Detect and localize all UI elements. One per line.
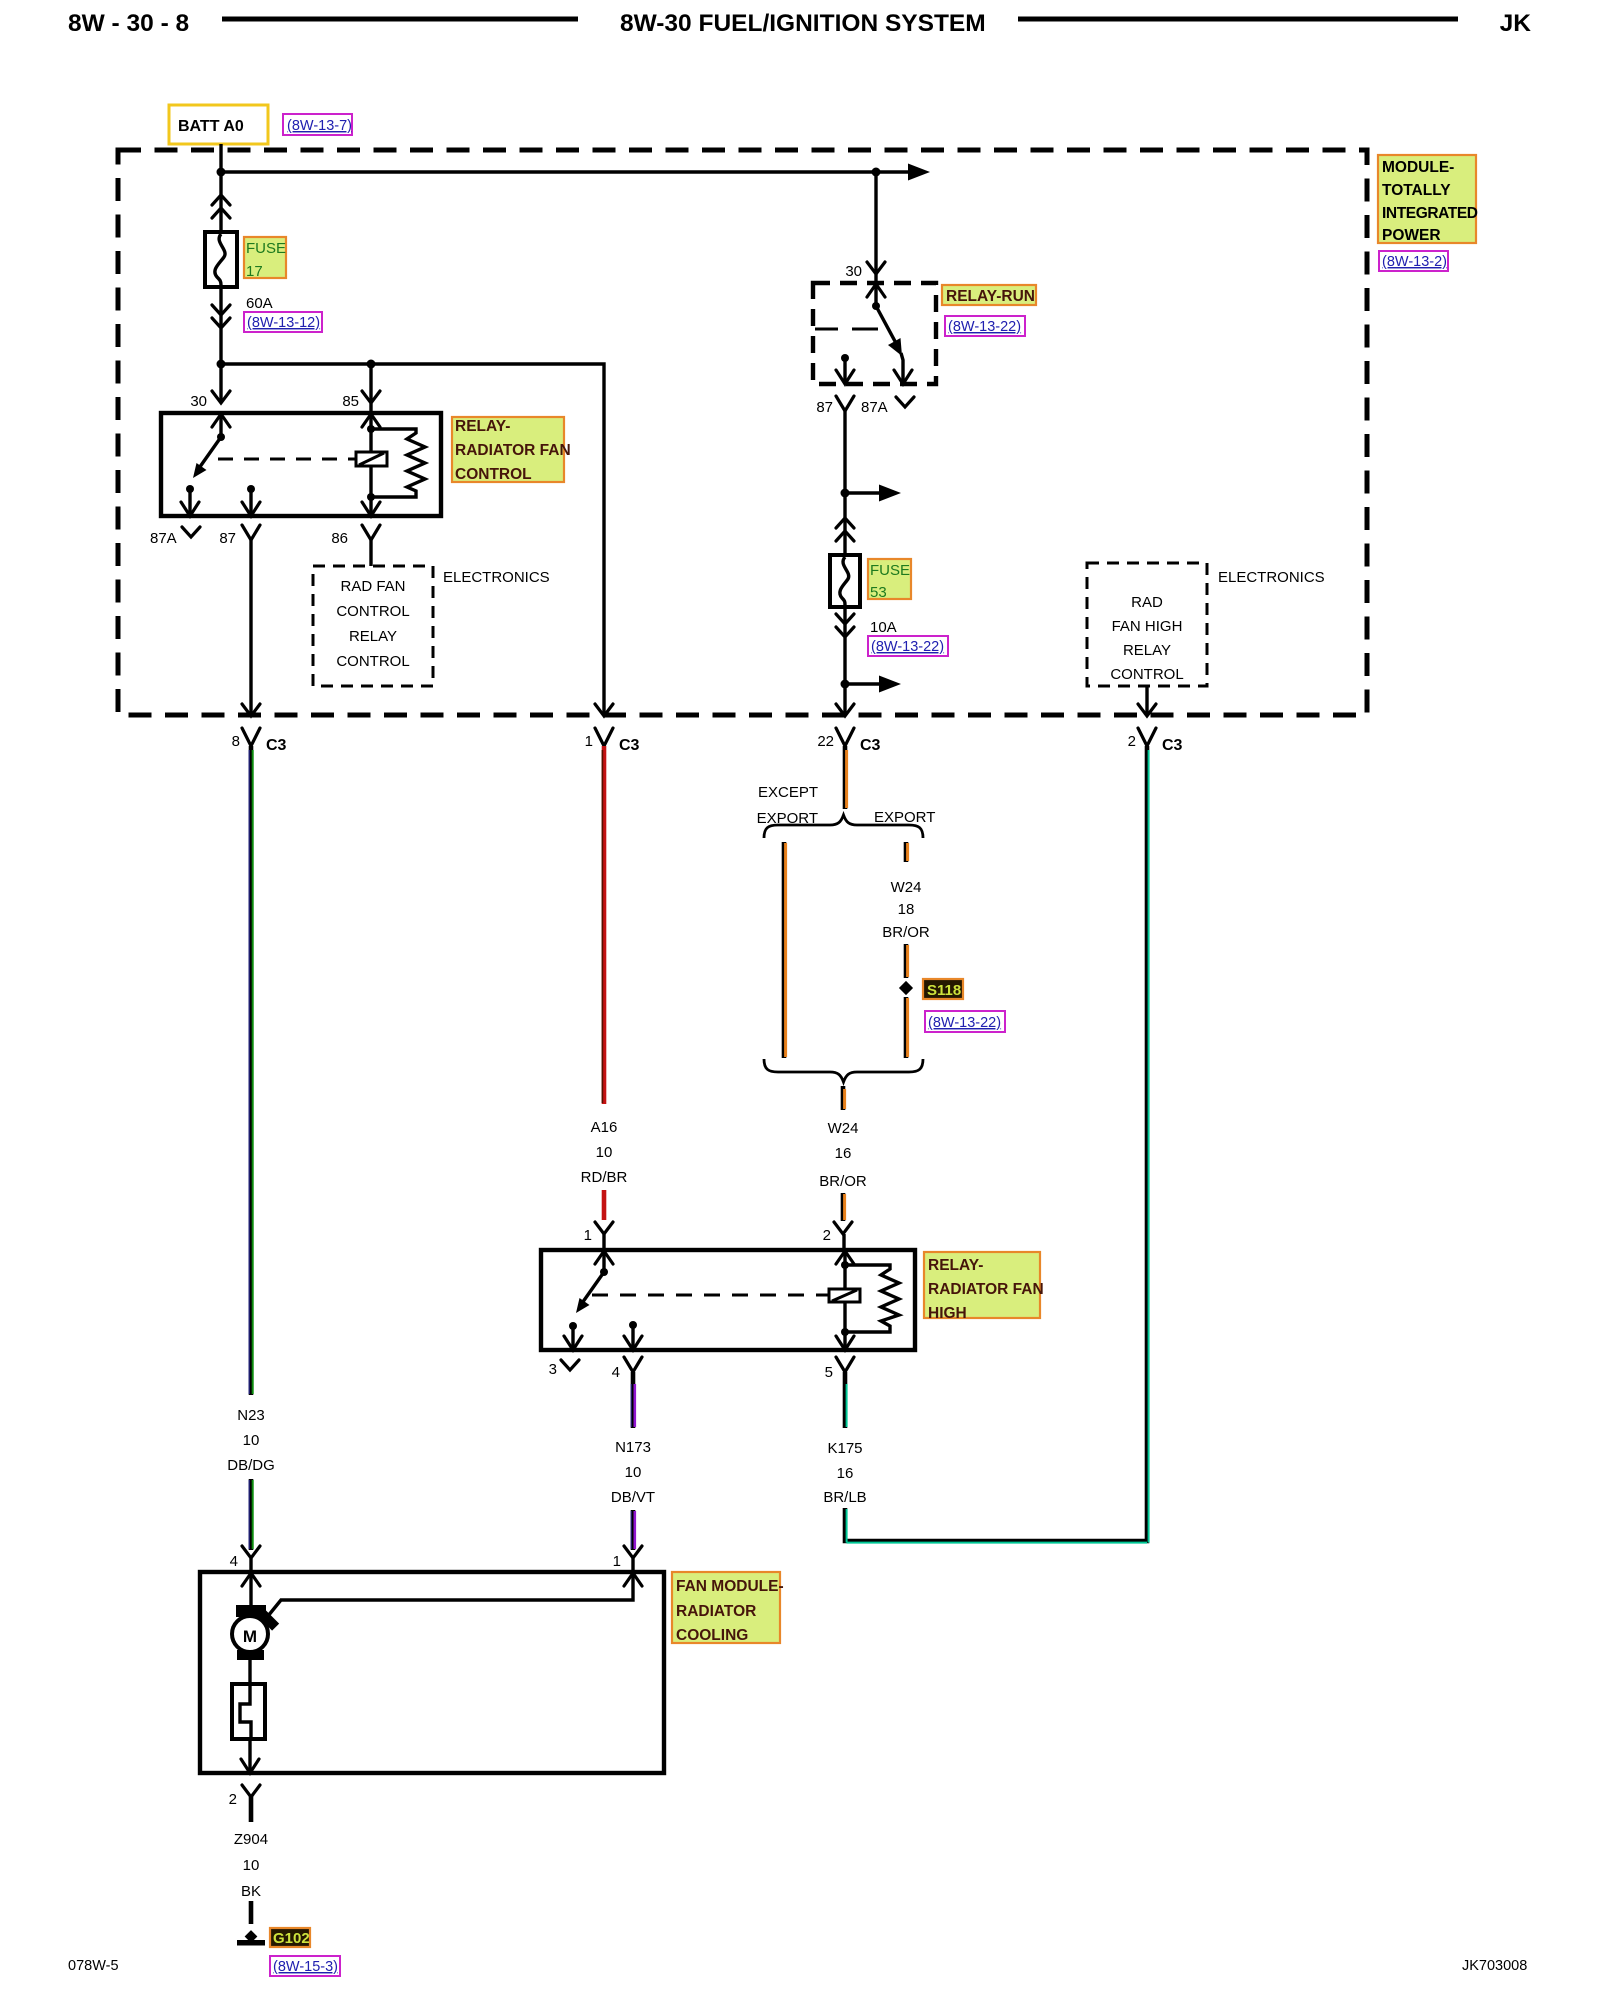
wire N23 10 DB/DG upper run (249, 746, 254, 1395)
resistor in relay K3 (845, 1265, 899, 1332)
svg-text:FUSE: FUSE (246, 240, 286, 257)
svg-text:2: 2 (823, 1227, 831, 1244)
svg-text:MODULE-: MODULE- (1382, 159, 1454, 176)
motor top brush (236, 1605, 266, 1617)
switch blade relay high (580, 1272, 604, 1306)
svg-text:1: 1 (584, 1227, 592, 1244)
wire into relay pin 2 (842, 1234, 845, 1250)
svg-text:2: 2 (1128, 733, 1136, 750)
wire A16 10 RD/BR upper run (602, 746, 607, 1104)
wire pin 87 stub relay-run (843, 358, 846, 384)
node pin 87 stub relay-run (841, 354, 849, 362)
svg-text:C3: C3 (1162, 737, 1183, 754)
connector Y at relay-run pin 87 (836, 396, 854, 411)
svg-text:85: 85 (342, 393, 359, 410)
pin 1 entry arrow (595, 1251, 613, 1264)
svg-text:HIGH: HIGH (928, 1305, 967, 1322)
connector Y at pin 4 (624, 1357, 642, 1372)
wire blade contact to pin 87A (901, 353, 903, 384)
pin 2 exit arrow (241, 1759, 259, 1773)
svg-text:CONTROL: CONTROL (455, 466, 532, 483)
svg-text:TOTALLY: TOTALLY (1382, 182, 1451, 199)
svg-text:5: 5 (825, 1364, 833, 1381)
wire K175 C3 pin 2 long run to corner (845, 746, 1147, 1541)
svg-text:17: 17 (246, 263, 263, 280)
fuse F53 (830, 555, 860, 607)
wire K175 pin 5 run (843, 1372, 848, 1428)
wire from BATT A0 down to fuse (219, 144, 222, 232)
svg-text:CONTROL: CONTROL (336, 603, 409, 620)
header rule left (222, 17, 578, 22)
svg-text:(8W-13-22): (8W-13-22) (948, 319, 1021, 335)
svg-text:10: 10 (625, 1464, 642, 1481)
connector chevron at relay-run pin 30 (867, 262, 885, 274)
splice S118 (899, 981, 913, 995)
svg-text:16: 16 (835, 1145, 852, 1162)
svg-text:C3: C3 (619, 737, 640, 754)
relay K2 RELAY-RUN dashed box (813, 283, 936, 384)
resistor in relay K1 (371, 429, 425, 497)
wire splice down (904, 997, 909, 1058)
wire bus to pin 85 and C3 pin 1 drop (221, 364, 604, 714)
wire W24 16 below merge (841, 1086, 846, 1110)
wire contact to pin 3 (571, 1326, 574, 1350)
wire pin 30 to pivot (874, 283, 877, 306)
pin 30 entry arrow (867, 284, 885, 297)
svg-text:(8W-13-22): (8W-13-22) (871, 639, 944, 655)
svg-text:1: 1 (585, 733, 593, 750)
wire into fan module pin 1 (631, 1558, 634, 1572)
wire export branch upper (904, 842, 909, 862)
wire A16 lower run (602, 1190, 607, 1220)
connector chevron at relay pin 85 (362, 391, 380, 403)
link (8W-13-22) s118 (925, 1011, 1005, 1032)
pin 4 entry arrow (242, 1573, 260, 1586)
svg-text:(8W-13-7): (8W-13-7) (287, 118, 352, 134)
wire export branch to splice (904, 944, 909, 978)
connector chevron pin 3 unused (561, 1360, 579, 1370)
svg-text:ELECTRONICS: ELECTRONICS (443, 569, 550, 586)
wire feed down to relay-run pin 30 (874, 172, 877, 283)
svg-text:RELAY-RUN: RELAY-RUN (946, 288, 1035, 305)
node junction at relay-run drop (872, 168, 881, 177)
pin 87A exit arrow (894, 370, 912, 384)
in-line connector chevrons below fuse 17 (212, 305, 230, 328)
motor diagonal brush (256, 1607, 279, 1630)
svg-text:RELAY-: RELAY- (455, 418, 510, 435)
label MODULE-TOTALLY INTEGRATED POWER (1378, 155, 1476, 243)
svg-text:EXCEPT: EXCEPT (758, 784, 818, 801)
svg-text:87: 87 (219, 530, 236, 547)
switch blade relay-run (876, 306, 897, 345)
svg-text:A16: A16 (591, 1119, 618, 1136)
svg-text:DB/VT: DB/VT (611, 1489, 655, 1506)
electronics block rad fan high relay control (1087, 563, 1207, 686)
label FAN MODULE-RADIATOR COOLING (672, 1572, 780, 1643)
C3 pin 2 border arrow (1138, 704, 1156, 716)
link (8W-15-3) (270, 1956, 340, 1976)
link (8W-13-22) fuse 53 (868, 636, 948, 656)
wire pin 2 to coil (843, 1250, 846, 1332)
wire N23 lower run (249, 1479, 254, 1550)
connector C3 pin 22 (836, 728, 854, 746)
pin 87 exit arrow relay-run (836, 370, 854, 384)
svg-text:(8W-15-3): (8W-15-3) (273, 1959, 338, 1975)
svg-text:ELECTRONICS: ELECTRONICS (1218, 569, 1325, 586)
connector C3 pin 2 (1138, 728, 1156, 746)
feed arrow continuing right (908, 164, 930, 181)
svg-text:G102: G102 (273, 1930, 310, 1947)
svg-text:10A: 10A (870, 619, 897, 636)
connector C3 pin 1 (595, 728, 613, 746)
wire into relay pin 1 (602, 1234, 605, 1250)
svg-text:8W-30 FUEL/IGNITION SYSTEM: 8W-30 FUEL/IGNITION SYSTEM (620, 10, 986, 37)
wire pin 86 to electronics (369, 540, 372, 566)
label RELAY-RADIATOR FAN CONTROL (452, 417, 564, 482)
pin 3 exit arrow (564, 1336, 582, 1350)
node junction above fuse 53 (841, 489, 850, 498)
wire pin 87 stub (249, 489, 252, 516)
svg-text:W24: W24 (891, 879, 922, 896)
svg-text:53: 53 (870, 584, 887, 601)
link (8W-13-7) (283, 114, 352, 135)
pin 87 exit arrow (242, 502, 260, 516)
relay K1 RADIATOR FAN CONTROL box (161, 413, 441, 516)
svg-text:8: 8 (232, 733, 240, 750)
node contact pin 3 (569, 1322, 577, 1330)
fuse F17 (205, 232, 237, 287)
svg-text:8W - 30 - 8: 8W - 30 - 8 (68, 10, 189, 37)
svg-text:RADIATOR: RADIATOR (676, 1603, 756, 1620)
pin 30 entry arrow (212, 414, 230, 427)
wire pin 87 to C3 pin 8 (249, 540, 252, 714)
svg-text:86: 86 (331, 530, 348, 547)
svg-text:DB/DG: DB/DG (227, 1457, 275, 1474)
svg-text:RAD: RAD (1131, 594, 1163, 611)
coil K3 (829, 1289, 860, 1302)
connector Y at pin 5 (836, 1357, 854, 1372)
coil K1 (356, 452, 387, 466)
svg-text:078W-5: 078W-5 (68, 1958, 119, 1974)
switch linkage dashed line relay high (592, 1294, 829, 1297)
svg-text:4: 4 (612, 1364, 620, 1381)
wire pin 4 to motor (249, 1572, 252, 1607)
wire Z904 upper segment (249, 1795, 254, 1822)
node coil bottom (367, 493, 375, 501)
svg-text:RELAY-: RELAY- (928, 1257, 983, 1274)
switch linkage dashed line relay-run (815, 328, 878, 331)
wire pin 4 stub (631, 1325, 634, 1350)
wire electronics to C3 pin 2 (1145, 686, 1148, 714)
wire pin 30 to pivot (219, 413, 222, 437)
wire N173 lower run (631, 1510, 636, 1550)
link (8W-13-22) relay-run (945, 316, 1025, 336)
svg-text:BR/OR: BR/OR (819, 1173, 867, 1190)
C3 pin 8 border arrow (242, 704, 260, 716)
connector chevron fan module pin 1 (624, 1546, 642, 1558)
connector chevron 87A unused relay-run (896, 397, 914, 407)
wire pin 1 to motor brush (268, 1572, 633, 1616)
ground G102 symbol (245, 1930, 258, 1943)
svg-text:COOLING: COOLING (676, 1627, 748, 1644)
node junction at relay coil drop (367, 360, 376, 369)
C3 pin 1 border arrow (595, 704, 613, 716)
node pin 87 stub (247, 485, 255, 493)
node coil top relay high (841, 1261, 849, 1269)
wire into fan module pin 4 (249, 1558, 252, 1572)
svg-text:CONTROL: CONTROL (336, 653, 409, 670)
relay K3 RADIATOR FAN HIGH box (541, 1250, 915, 1350)
svg-text:K175: K175 (827, 1440, 862, 1457)
wire coil to pin 5 (843, 1332, 846, 1350)
wire limiter to pin 2 (248, 1739, 251, 1773)
node junction below fuse 53 (841, 680, 850, 689)
svg-text:N23: N23 (237, 1407, 265, 1424)
node junction at battery feed (217, 168, 226, 177)
svg-text:10: 10 (596, 1144, 613, 1161)
svg-text:N173: N173 (615, 1439, 651, 1456)
svg-text:87A: 87A (150, 530, 177, 547)
svg-text:60A: 60A (246, 295, 273, 312)
svg-text:(8W-13-12): (8W-13-12) (247, 315, 320, 331)
svg-text:10: 10 (243, 1432, 260, 1449)
node coil top (367, 425, 375, 433)
svg-text:RELAY: RELAY (349, 628, 397, 645)
svg-text:22: 22 (817, 733, 834, 750)
label RELAY-RUN (942, 285, 1036, 305)
label G102 (270, 1928, 310, 1947)
svg-text:30: 30 (190, 393, 207, 410)
link (8W-13-2) (1379, 251, 1448, 271)
connector chevron 87A unused (182, 527, 200, 537)
label FUSE 17 (244, 237, 286, 278)
motor M1 circle (232, 1616, 268, 1652)
wire drop to relay pin 85 (369, 364, 372, 413)
connector C3 pin 8 (242, 728, 260, 746)
motor bottom brush (237, 1650, 264, 1660)
thermal limiter component (232, 1684, 265, 1739)
wire battery feed bus to relay-run branch (221, 170, 911, 173)
wire Z904 lower segment (249, 1901, 254, 1924)
in-line connector chevrons above fuse 17 (212, 195, 230, 218)
node switch pivot (217, 433, 225, 441)
wire coil to pin 86 (369, 497, 372, 516)
svg-text:18: 18 (898, 901, 915, 918)
pin 1 entry arrow (624, 1573, 642, 1586)
svg-text:BATT A0: BATT A0 (178, 118, 244, 135)
svg-text:EXPORT: EXPORT (874, 809, 935, 826)
node coil bottom relay high (841, 1328, 849, 1336)
wire pin 85 to coil (369, 413, 372, 497)
wire relay-run pin 87 down to fuse 53 (843, 411, 846, 555)
fan module radiator cooling box (200, 1572, 664, 1773)
branch arrow right lower (845, 682, 880, 685)
connector Y at fan pin 2 (242, 1785, 260, 1797)
svg-text:FAN MODULE-: FAN MODULE- (676, 1578, 784, 1595)
pin 86 exit arrow (362, 502, 380, 516)
svg-text:CONTROL: CONTROL (1110, 666, 1183, 683)
brace split top (764, 815, 923, 838)
pin 85 entry arrow (362, 414, 380, 427)
node switch pivot relay-run (872, 302, 880, 310)
brace merge bottom (764, 1059, 923, 1082)
wire contact to pin 87A (188, 489, 191, 516)
connector chevron relay pin 1 (595, 1222, 613, 1234)
svg-text:INTEGRATED: INTEGRATED (1382, 205, 1478, 222)
svg-text:BR/OR: BR/OR (882, 924, 930, 941)
label RELAY-RADIATOR FAN HIGH (924, 1252, 1040, 1318)
svg-text:JK703008: JK703008 (1462, 1958, 1527, 1974)
label FUSE 53 (868, 559, 911, 599)
pin 87A exit arrow (181, 502, 199, 516)
svg-text:16: 16 (837, 1465, 854, 1482)
svg-text:RD/BR: RD/BR (581, 1169, 628, 1186)
pin 5 exit arrow (836, 1336, 854, 1350)
C3 pin 22 border arrow (836, 704, 854, 716)
svg-text:BR/LB: BR/LB (823, 1489, 866, 1506)
battery feed terminal BATT A0 (169, 105, 268, 144)
svg-text:W24: W24 (828, 1120, 859, 1137)
svg-text:30: 30 (845, 263, 862, 280)
svg-text:4: 4 (230, 1553, 238, 1570)
branch arrow right upper (845, 491, 880, 494)
svg-text:RAD FAN: RAD FAN (340, 578, 405, 595)
svg-text:(8W-13-22): (8W-13-22) (928, 1015, 1001, 1031)
wire W24 16 to relay pin 2 (841, 1193, 846, 1221)
svg-text:1: 1 (613, 1553, 621, 1570)
svg-text:C3: C3 (266, 737, 287, 754)
in-line connector chevrons above fuse 53 (836, 518, 854, 541)
node junction below fuse (217, 360, 226, 369)
connector chevron fan module pin 4 (242, 1546, 260, 1558)
pin 4 exit arrow (624, 1336, 642, 1350)
svg-text:M: M (243, 1627, 257, 1646)
svg-text:POWER: POWER (1382, 227, 1441, 244)
connector Y at pin 87 (242, 525, 260, 540)
node contact 87A (186, 485, 194, 493)
svg-text:FAN HIGH: FAN HIGH (1112, 618, 1183, 635)
svg-text:3: 3 (549, 1361, 557, 1378)
pin 2 entry arrow (836, 1251, 854, 1264)
svg-text:Z904: Z904 (234, 1831, 268, 1848)
svg-text:BK: BK (241, 1883, 261, 1900)
connector chevron relay pin 2 (834, 1222, 852, 1234)
switch linkage dashed line (218, 458, 356, 461)
electronics block rad fan control relay control (313, 566, 433, 686)
svg-text:RELAY: RELAY (1123, 642, 1171, 659)
label S118 (923, 979, 963, 999)
wire W24 from C3 pin 22 (843, 746, 848, 809)
connector chevron at relay pin 30 (212, 391, 230, 403)
link (8W-13-12) (244, 312, 322, 332)
connector Y at pin 86 (362, 525, 380, 540)
wire pin 1 to pivot (602, 1250, 605, 1272)
svg-text:S118: S118 (927, 982, 961, 999)
svg-text:FUSE: FUSE (870, 562, 910, 579)
svg-text:87: 87 (816, 399, 833, 416)
header rule right (1018, 17, 1458, 22)
wire fuse 53 to C3 pin 22 (843, 607, 846, 714)
wire fuse 17 to bus node (219, 287, 222, 403)
svg-text:C3: C3 (860, 737, 881, 754)
node switch pivot relay high (600, 1268, 608, 1276)
switch blade K1 (197, 437, 221, 471)
module TIPM dashed boundary box (118, 150, 1367, 715)
svg-text:RADIATOR FAN: RADIATOR FAN (928, 1281, 1044, 1298)
svg-text:(8W-13-2): (8W-13-2) (1382, 254, 1447, 270)
svg-text:10: 10 (243, 1857, 260, 1874)
svg-text:2: 2 (229, 1791, 237, 1808)
wire except-export branch (782, 842, 787, 1058)
svg-text:JK: JK (1500, 10, 1532, 37)
wire motor to thermal limiter (248, 1660, 251, 1684)
node pin 4 stub (629, 1321, 637, 1329)
svg-text:RADIATOR FAN: RADIATOR FAN (455, 442, 571, 459)
in-line connector chevrons below fuse 53 (836, 614, 854, 637)
wire N173 10 DB/VT upper run (631, 1372, 636, 1428)
svg-text:87A: 87A (861, 399, 888, 416)
